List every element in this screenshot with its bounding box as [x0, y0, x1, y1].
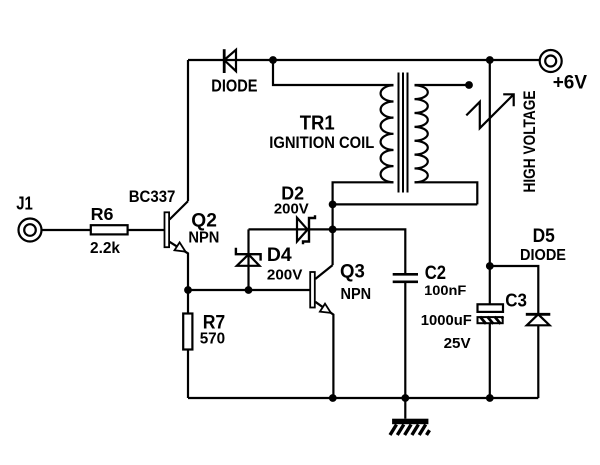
terminal J1 inner circle [24, 224, 36, 236]
wire: drop from top rail to TR1 primary top [273, 60, 394, 85]
terminal +6V outer circle [540, 50, 562, 72]
ground bar [392, 419, 428, 425]
junction dot: bottom rail / ground [401, 394, 409, 402]
transistor Q3 emitter arrow [320, 304, 331, 313]
wire: C2 top link [333, 229, 406, 273]
svg-text:NPN: NPN [341, 286, 372, 303]
wire: primary bottom exit [333, 182, 394, 204]
transformer TR1 secondary winding [415, 85, 428, 182]
diode D5 cathode bar [526, 313, 551, 316]
wire: R7 bottom lead to bottom rail [187, 350, 189, 399]
svg-text:25V: 25V [444, 335, 471, 352]
wire: D4 vertical branch [247, 229, 249, 290]
wire: J1 to R6 [41, 229, 91, 231]
transistor Q2 base bar [165, 212, 170, 247]
transformer TR1 primary winding [381, 85, 394, 182]
wire: secondary bottom exit [415, 182, 478, 204]
svg-text:D2: D2 [281, 183, 304, 203]
svg-text:NPN: NPN [188, 230, 219, 247]
junction dot: bottom rail / C3 [486, 394, 494, 402]
svg-text:Q2: Q2 [191, 211, 217, 232]
svg-text:2.2k: 2.2k [90, 240, 120, 257]
svg-text:IGNITION COIL: IGNITION COIL [269, 133, 374, 152]
junction dot: right rail / D5 branch [486, 262, 494, 270]
svg-text:+6V: +6V [553, 73, 588, 94]
junction dot: top rail / right rail [486, 56, 494, 64]
spark gap arrow (high voltage) [466, 94, 513, 128]
svg-text:Q3: Q3 [340, 261, 365, 283]
svg-text:BC337: BC337 [129, 188, 176, 206]
junction dot: transformer bottom / collector riser [329, 201, 337, 209]
transistor Q2 collector lead [170, 201, 189, 219]
svg-text:C3: C3 [505, 291, 527, 311]
wire: D5 anode to bottom rail [537, 325, 539, 398]
svg-text:100nF: 100nF [424, 283, 466, 298]
svg-text:570: 570 [200, 331, 226, 348]
transistor Q2 emitter arrow [175, 242, 186, 251]
capacitor C3 bottom plate (hatched) [478, 317, 503, 323]
wire: right rail lower (C3 bottom to bottom rail) [489, 323, 491, 398]
junction dot: Q2 emitter / R7 [184, 286, 192, 294]
zener D4 triangle [237, 254, 260, 265]
resistor R7 body [183, 314, 192, 350]
diode DIODE (top) triangle [224, 50, 236, 71]
zener D2 cathode bar with hooks [303, 215, 315, 244]
terminal +6V inner circle [545, 56, 556, 67]
svg-text:D4: D4 [267, 245, 292, 266]
svg-text:J1: J1 [16, 192, 33, 213]
zener D2 triangle [297, 218, 308, 242]
wire: R6 to Q2 base [128, 229, 165, 231]
wire: transformer bottom link [333, 203, 478, 205]
svg-text:DIODE: DIODE [520, 247, 566, 264]
wire: collector riser x=332.6 (transformer bottom to Q3 collector) [332, 204, 334, 265]
terminal J1 outer circle [19, 219, 42, 242]
transformer TR1 core lines [399, 73, 408, 193]
wire: Q2 collector vertical riser [187, 60, 189, 201]
capacitor C2 top plate [393, 273, 418, 276]
transistor Q2 emitter lead [170, 242, 189, 290]
zener D4 cathode bar with hooks [236, 248, 261, 261]
capacitor C2 bottom plate [393, 280, 418, 283]
ground hatching [390, 425, 430, 436]
svg-text:200V: 200V [267, 267, 303, 284]
svg-text:D5: D5 [533, 225, 555, 247]
svg-text:R6: R6 [91, 204, 114, 224]
svg-text:1000uF: 1000uF [421, 312, 472, 329]
ground stub [404, 398, 406, 419]
wire: R7 top lead [187, 290, 189, 314]
svg-text:C2: C2 [425, 262, 446, 284]
wire: D2 row (corner at D4 top to collector riser) [249, 228, 333, 230]
wire: secondary top to spark node [415, 84, 470, 86]
junction dot: D4 anode tap [245, 286, 253, 294]
wire: right rail upper (top rail to C3 top plate) [489, 60, 491, 304]
wire: C2 bottom to bottom rail [404, 283, 406, 398]
transistor Q3 base bar [310, 272, 315, 308]
wire: D5 branch horizontal and down to D5 [490, 266, 539, 314]
diode DIODE (top) cathode bar [223, 49, 226, 73]
svg-text:TR1: TR1 [300, 112, 335, 135]
svg-text:200V: 200V [274, 202, 309, 218]
wire: bottom rail [188, 397, 538, 399]
resistor R6 body [91, 225, 128, 234]
junction dot: bottom rail / Q3 emitter [329, 394, 337, 402]
junction dot: top rail / primary drop [269, 56, 277, 64]
capacitor C3 top plate [478, 304, 504, 312]
wire: top rail from Q2 collector corner to +6V terminal [188, 59, 540, 61]
junction dot: D2 cathode node [329, 226, 337, 234]
junction dot: secondary top end [465, 81, 473, 89]
wire: emitter rail (Q2 emitter to Q3 base) [188, 289, 310, 291]
svg-text:DIODE: DIODE [211, 75, 257, 95]
diode D5 triangle [527, 314, 550, 325]
transistor Q3 emitter lead [315, 302, 333, 398]
transistor Q3 collector lead [315, 265, 332, 279]
svg-text:HIGH VOLTAGE: HIGH VOLTAGE [521, 91, 539, 193]
